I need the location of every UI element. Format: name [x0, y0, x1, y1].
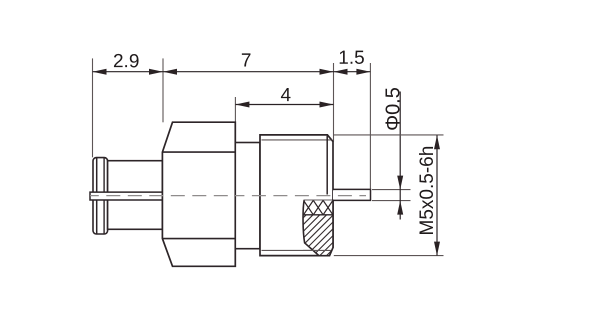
centerline axis right [235, 195, 366, 197]
M5 extension line top [334, 134, 444, 136]
svg-text:7: 7 [241, 50, 252, 71]
sleeve tube [108, 161, 163, 230]
cap edge line 1 [96, 158, 98, 234]
centerline axis left [90, 195, 235, 197]
thread crest line bottom [262, 249, 332, 251]
insulator divider line [303, 214, 333, 216]
left pin white underlay [89, 191, 162, 200]
dimension line 4 [235, 104, 333, 106]
thread crest line top [262, 139, 332, 141]
contact cap (left flange) [93, 158, 108, 234]
right contact pin [304, 189, 371, 200]
diamond hatch band [304, 200, 333, 214]
extension line at pin end (1.5 right) [369, 63, 371, 189]
phi0.5 dimension line [399, 92, 401, 220]
dimension line 7 [163, 71, 334, 73]
chamfer inner edge [326, 136, 328, 195]
phi0.5 extension line top [372, 189, 411, 191]
insulator outline [303, 200, 333, 255]
M5 dimension line [436, 135, 438, 255]
hex flat lower line [162, 238, 235, 240]
hex body [162, 122, 235, 266]
extension line at body right face (7 right / 1.5 left / 4 right) [333, 63, 335, 142]
svg-text:4: 4 [281, 85, 292, 106]
svg-text:1.5: 1.5 [338, 48, 364, 69]
svg-text:2.9: 2.9 [113, 51, 139, 72]
thread crest line bottom over section [303, 249, 331, 251]
svg-text:Φ0.5: Φ0.5 [382, 87, 404, 131]
threaded body M5 [260, 135, 333, 256]
phi0.5 extension line bottom [372, 200, 411, 202]
diagonal hatch [290, 215, 368, 256]
step ring [235, 143, 260, 249]
extension line at hex right face (4 left) [234, 97, 236, 122]
svg-text:M5x0.5-6h: M5x0.5-6h [417, 146, 438, 236]
extension line left of cap (2.9 left) [92, 58, 94, 157]
left contact pin [90, 192, 162, 200]
M5 extension line bottom [334, 255, 444, 257]
insulator section block [290, 200, 368, 255]
dimension line 1.5 [334, 71, 371, 73]
hex flat upper line [162, 151, 235, 153]
extension line at hex left face (2.9 right / 7 left) [162, 58, 164, 122]
dimension line 2.9 [93, 71, 164, 73]
cap edge line 2 [103, 158, 105, 234]
